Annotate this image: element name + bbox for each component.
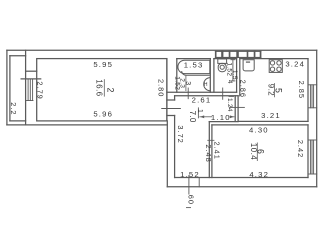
- door kitchen leaf line: [230, 106, 245, 108]
- window bottom cap: [26, 100, 33, 102]
- svg-text:3.21: 3.21: [261, 111, 281, 120]
- room6 window cap top: [308, 139, 317, 141]
- svg-text:2.41: 2.41: [213, 142, 222, 160]
- svg-text:2.48: 2.48: [204, 144, 213, 162]
- room 3 underline: [185, 76, 187, 92]
- svg-text:16.6: 16.6: [95, 79, 104, 96]
- toilet left wall line: [213, 59, 215, 93]
- room 5 underline: [273, 83, 275, 97]
- kitchen sink tap dash: [246, 61, 250, 63]
- kitchen window cap bottom: [308, 107, 317, 109]
- svg-text:1: 1: [196, 109, 203, 113]
- wire left outer wall: [25, 50, 27, 125]
- wall room2|bathroom right line: [176, 59, 178, 93]
- toilet bowl: [218, 63, 226, 71]
- corridor nook bottom wall upper line: [209, 121, 238, 123]
- balcony outline outer: [6, 50, 8, 125]
- room6 top interior line: [212, 124, 308, 126]
- svg-text:2.80: 2.80: [157, 79, 166, 97]
- dim tick on corridor room6 wall: [208, 139, 214, 141]
- room6 window cap bottom: [308, 173, 317, 175]
- svg-text:6: 6: [256, 149, 266, 154]
- svg-text:3.72: 3.72: [176, 125, 185, 143]
- toilet tank: [218, 59, 227, 64]
- svg-text:4: 4: [226, 80, 233, 84]
- dim arrowhead 1.10 right: [230, 115, 234, 118]
- svg-text:3: 3: [184, 81, 191, 85]
- svg-text:2.86: 2.86: [238, 80, 247, 98]
- vent block band in top wall: [215, 51, 262, 58]
- kitchen sink: [243, 60, 254, 71]
- kitchen top interior line: [240, 58, 308, 60]
- bathtub rim line: [182, 71, 210, 75]
- room6 window glazing lines: [309, 140, 311, 174]
- svg-text:2.42: 2.42: [296, 140, 305, 158]
- entrance door jamb line: [198, 178, 200, 187]
- window glazing line 2: [29, 79, 31, 101]
- wire right outer wall: [316, 50, 318, 187]
- corridor|room6 wall left line: [208, 122, 210, 178]
- corridor left wall inner line upper stub: [174, 96, 176, 100]
- svg-text:2.85: 2.85: [297, 81, 306, 99]
- door toilet leaf line: [222, 88, 224, 99]
- svg-text:1.10: 1.10: [211, 113, 231, 122]
- door room2 bottom jamb line: [167, 115, 175, 117]
- stove burner 2: [277, 61, 281, 65]
- kitchen lower-left wall line b: [237, 96, 239, 122]
- bathroom right wall line: [209, 59, 211, 93]
- door bathroom leaf line: [187, 88, 189, 99]
- washbasin: [204, 78, 211, 91]
- balcony inner bottom line: [10, 120, 26, 122]
- wire top outer wall: [7, 49, 317, 51]
- window glazing line 1: [27, 79, 29, 101]
- svg-text:2.61: 2.61: [192, 96, 212, 105]
- wire bottom outer wall of lower leg: [167, 186, 316, 188]
- svg-text:2: 2: [105, 88, 115, 93]
- svg-text:1.52: 1.52: [180, 170, 200, 179]
- toilet bowl circle: [220, 65, 224, 69]
- stove burner 3: [270, 67, 274, 71]
- corridor top interior line: [175, 95, 239, 97]
- svg-text:1.5: 1.5: [231, 70, 238, 80]
- dim tick below 60: [186, 207, 191, 209]
- kitchen left wall upper line: [239, 59, 241, 96]
- room 2 underline: [103, 79, 105, 96]
- svg-text:5.96: 5.96: [93, 109, 113, 118]
- corridor and room6 bottom interior line: [175, 177, 308, 179]
- balcony inner left line: [9, 56, 11, 121]
- svg-text:4.32: 4.32: [249, 170, 269, 179]
- kitchen window cap top: [308, 84, 317, 86]
- window sill line left wall: [21, 78, 41, 80]
- kitchen lower-left wall line a: [234, 96, 236, 122]
- svg-text:1.53: 1.53: [184, 61, 204, 70]
- svg-text:3.24: 3.24: [285, 59, 305, 68]
- dim arrow 1.10 left: [200, 116, 212, 118]
- svg-text:2.2: 2.2: [9, 102, 18, 115]
- svg-text:5: 5: [273, 88, 283, 93]
- svg-text:7.0: 7.0: [188, 111, 197, 123]
- svg-text:5.95: 5.95: [93, 60, 113, 69]
- svg-text:Н: Н: [204, 82, 208, 88]
- bath and toilet bottom wall upper line: [167, 91, 237, 93]
- dim arrowhead 1.10 left: [200, 115, 204, 118]
- toilet top interior line: [214, 58, 237, 60]
- dim line toilet 1.52: [232, 60, 234, 81]
- room 6 underline: [256, 143, 258, 162]
- window opening top edge in left wall: [26, 70, 37, 72]
- entrance door leaf line: [188, 175, 190, 194]
- wire left outer wall of lower leg: [166, 121, 168, 187]
- corridor|room6 wall right line: [211, 125, 213, 178]
- window glazing line 3: [32, 79, 34, 101]
- dim arrow 1.10 right: [230, 116, 234, 118]
- kitchen bottom interior line: [238, 120, 308, 122]
- kitchen window glazing lines: [309, 85, 311, 108]
- room 1 underline: [197, 107, 199, 118]
- svg-text:4.30: 4.30: [249, 126, 269, 135]
- corridor left wall outer line: [166, 59, 168, 121]
- svg-text:2.79: 2.79: [36, 81, 45, 99]
- stove burner 1: [270, 61, 274, 65]
- room 2 interior outline: [37, 59, 167, 121]
- door room2 top jamb line: [167, 99, 175, 101]
- corridor left wall inner line lower: [174, 116, 176, 178]
- stove burner 4: [277, 67, 281, 71]
- kitchen right interior line: [307, 59, 309, 122]
- svg-text:60: 60: [186, 195, 195, 205]
- toilet right wall line: [236, 59, 238, 93]
- stove: [269, 60, 282, 73]
- wire bottom outer wall left part: [7, 124, 167, 126]
- room6 right interior line: [307, 125, 309, 178]
- door room2 leaf line: [162, 108, 181, 110]
- svg-text:1.24: 1.24: [226, 98, 233, 112]
- bathroom top interior line: [177, 58, 211, 60]
- balcony inner top line: [10, 55, 26, 57]
- bathtub: [178, 60, 210, 73]
- dim tick 1.24 top: [229, 95, 234, 97]
